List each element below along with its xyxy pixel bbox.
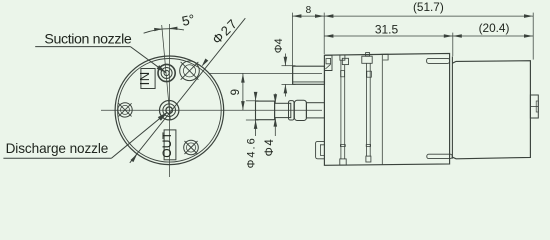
wire horizontal centerline (discharge nozzle axis) bbox=[101, 109, 322, 111]
arrowhead of 5-degree arc at vertical centerline bbox=[169, 27, 177, 30]
arrowhead dim (51.7) left bbox=[324, 14, 333, 18]
underline of Suction nozzle label bbox=[35, 46, 130, 48]
screw left bbox=[118, 103, 132, 117]
discharge nozzle middle section (phi 4) bbox=[275, 103, 291, 117]
housing rib top at x=382 bbox=[381, 54, 389, 60]
arrowhead phi4 upper bottom bbox=[284, 84, 288, 93]
housing latch clip top at x=342 bbox=[340, 55, 345, 60]
underline of Discharge nozzle label bbox=[3, 157, 111, 159]
screw bottom-right bbox=[184, 140, 199, 155]
housing seam line at x=382 bbox=[381, 54, 383, 165]
housing latch clip bottom at x=342 bbox=[340, 159, 346, 165]
svg-text:Suction nozzle: Suction nozzle bbox=[44, 32, 131, 48]
arrowhead dim 31.5 right bbox=[444, 34, 453, 38]
arrowhead of 5-degree arc at tilted line bbox=[154, 28, 162, 31]
arrowhead dim 9 bottom bbox=[241, 101, 245, 110]
dimension line phi4 lower top part bbox=[274, 94, 276, 104]
svg-text:9: 9 bbox=[230, 89, 242, 95]
suction nozzle stub (side view) bbox=[293, 66, 325, 84]
svg-text:Φ4.6: Φ4.6 bbox=[245, 136, 257, 168]
OUT marking box bbox=[164, 130, 176, 160]
extension line at motor rear face bbox=[532, 13, 534, 60]
extension line bottom of upper nozzle bbox=[282, 83, 296, 85]
extension line bottom of nozzle tip bbox=[246, 119, 259, 121]
dimension line phi4 upper nozzle top part bbox=[284, 54, 286, 66]
svg-text:8: 8 bbox=[306, 5, 312, 16]
wire vertical centerline of front view bbox=[168, 24, 170, 177]
svg-text:Φ4: Φ4 bbox=[264, 138, 276, 157]
svg-text:OUT: OUT bbox=[160, 131, 174, 157]
leader line to suction nozzle bbox=[130, 47, 166, 73]
dimension line phi4 lower bottom part bbox=[274, 118, 276, 136]
IN marking box bbox=[141, 69, 155, 89]
svg-text:5°: 5° bbox=[180, 12, 196, 29]
arrowhead phi4 lower top bbox=[274, 94, 278, 103]
arrowhead at suction nozzle bbox=[157, 65, 166, 73]
arrowhead dim (51.7) right bbox=[524, 14, 533, 18]
housing latch clip top at x=368 bbox=[366, 53, 370, 57]
arrowhead of Φ27 at lower left of circle bbox=[131, 154, 138, 162]
housing corner clip top-left bbox=[324, 55, 332, 70]
corner clip inner hook line bbox=[325, 64, 330, 69]
wire 5-degree tilted centerline bbox=[162, 25, 171, 120]
dimension line phi4.6 bottom part bbox=[255, 120, 257, 136]
extension line top of upper nozzle bbox=[282, 65, 296, 67]
arrowhead phi4 lower bottom bbox=[274, 118, 278, 127]
svg-text:IN: IN bbox=[137, 71, 152, 85]
arrowhead dim 31.5 left bbox=[324, 34, 333, 38]
discharge nozzle base stub bbox=[306, 103, 324, 118]
inner line of suction nozzle stub bbox=[293, 81, 325, 83]
motor bracket arm top bbox=[427, 58, 450, 63]
arrowhead dim (20.4) right bbox=[524, 34, 533, 38]
dimension row 2: 31.5 and (20.4) bbox=[324, 35, 533, 37]
housing seam lines at x=368 bbox=[365, 63, 367, 156]
arrowhead of Φ27 at upper right of circle bbox=[202, 59, 209, 67]
extension line at body left face bbox=[323, 13, 325, 54]
wire diameter line for dim Φ27 bbox=[130, 18, 246, 163]
housing clip bottom-left (protruding) bbox=[316, 141, 325, 158]
dimension line phi4 upper nozzle bottom part bbox=[284, 85, 286, 97]
svg-text:(20.4): (20.4) bbox=[479, 21, 510, 35]
dimension line 9 bbox=[242, 73, 244, 110]
motor body outline bbox=[452, 61, 530, 159]
suction nozzle port circles bbox=[158, 64, 175, 81]
terminal block contact nub bbox=[536, 101, 538, 112]
extension line at motor front face bbox=[452, 33, 454, 57]
svg-text:31.5: 31.5 bbox=[375, 23, 399, 37]
housing latch clip bottom at x=368 bbox=[366, 156, 371, 162]
arrowhead dim 8 right bbox=[315, 14, 324, 18]
front view: pump face inner rim circle bbox=[118, 59, 222, 163]
dimension arc for 5 degree angle bbox=[144, 29, 184, 33]
arrowhead dim 8 left bbox=[292, 14, 301, 18]
discharge nozzle center hub circles bbox=[160, 101, 179, 120]
pump housing body outline (side view) bbox=[324, 53, 449, 165]
screw top-right bbox=[180, 61, 200, 81]
arrowhead dim 9 top bbox=[241, 74, 245, 83]
svg-text:Discharge nozzle: Discharge nozzle bbox=[6, 141, 109, 156]
front view: pump face outer circle (diameter 27) bbox=[115, 56, 224, 165]
extension line at nozzle tip x=292 bbox=[292, 13, 294, 85]
svg-text:Φ4: Φ4 bbox=[273, 38, 285, 53]
discharge nozzle barb ring 1 bbox=[289, 101, 295, 120]
wire suction nozzle axis centerline bbox=[209, 72, 322, 74]
motor terminal block bbox=[530, 95, 538, 118]
arrowhead at discharge nozzle hub bbox=[158, 112, 168, 121]
svg-text:Φ27: Φ27 bbox=[209, 15, 241, 47]
arrowhead phi4.6 top bbox=[254, 92, 258, 101]
discharge nozzle tip section (phi 4.6) bbox=[256, 101, 275, 120]
arrowhead dim (20.4) left bbox=[453, 34, 462, 38]
dimension row 1: 8 and (51.7) bbox=[292, 15, 533, 17]
motor front plate line bbox=[451, 57, 453, 159]
dimension line phi4.6 top part bbox=[255, 93, 257, 101]
extension line top of nozzle tip bbox=[246, 100, 259, 102]
terminal block divider bbox=[530, 106, 538, 108]
arrowhead phi4 upper top bbox=[284, 57, 288, 66]
motor bracket arm bottom bbox=[427, 154, 452, 158]
discharge nozzle barb ring 2 bbox=[294, 100, 306, 120]
svg-text:(51.7): (51.7) bbox=[413, 0, 444, 14]
housing seam lines at x=342 bbox=[340, 60, 342, 159]
arrowhead phi4.6 bottom bbox=[254, 120, 258, 129]
leader line to discharge nozzle hub bbox=[111, 113, 167, 159]
